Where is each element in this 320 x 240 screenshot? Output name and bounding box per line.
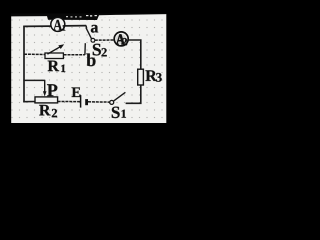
node b stub <box>84 43 86 55</box>
switch S1 blade <box>114 92 126 101</box>
wire A2 to right corner down to R3 <box>128 40 141 69</box>
label S2 <box>93 44 107 57</box>
wire S2 to A2 <box>95 39 115 41</box>
battery E long plate <box>80 95 82 108</box>
label R1 <box>48 61 66 72</box>
wire left rail to R1 <box>24 53 45 55</box>
ammeter A1 <box>51 17 66 31</box>
rheostat R1 box <box>45 53 63 59</box>
wire battery to S1 <box>88 101 110 103</box>
wire bottom left to R2 <box>23 101 35 103</box>
switch S1 contact <box>110 100 114 104</box>
battery E short plate <box>85 99 88 105</box>
switch S2 blade <box>86 29 91 39</box>
label a <box>91 25 98 33</box>
ragged scan specks on top blob edge <box>66 15 115 18</box>
ammeter A2 <box>114 32 128 46</box>
label E <box>72 88 81 98</box>
wire top from left corner to A1 <box>23 25 51 27</box>
resistor R3 box <box>138 69 144 85</box>
label R3 <box>146 70 162 81</box>
black photo background <box>0 0 179 160</box>
wire R3 down to corner and left to S1 <box>126 85 141 103</box>
slider P arrow <box>43 80 47 97</box>
wire left rail to slider P <box>23 79 44 81</box>
wire R1 to node b <box>64 54 85 56</box>
wire top from A1 to node a <box>65 25 87 27</box>
label S1 <box>112 107 126 119</box>
wire left rail <box>23 26 25 103</box>
white paper area <box>11 14 166 123</box>
rheostat R1 arrow <box>47 44 64 54</box>
potentiometer R2 box <box>35 97 58 103</box>
switch S2 pivot contact <box>91 38 95 42</box>
switch S2 corner stub at node a <box>85 26 87 29</box>
dark top scan blob <box>11 14 167 21</box>
wire R2 to battery <box>58 101 80 103</box>
label R2 <box>39 105 57 117</box>
label P <box>47 84 57 96</box>
label b <box>86 54 95 67</box>
